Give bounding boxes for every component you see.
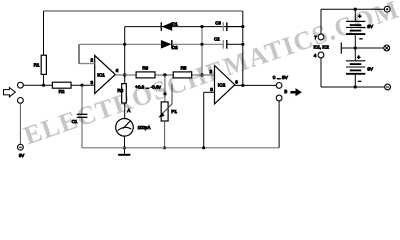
svg-text:100µA: 100µA: [138, 125, 151, 130]
svg-text:6: 6: [116, 68, 119, 73]
wire pin4 vertical: [320, 58, 322, 87]
wire C3 right: [227, 26, 243, 28]
output terminal top: [276, 83, 282, 89]
op-amp IC1: [95, 56, 116, 94]
svg-text:IC1, IC2: IC1, IC2: [314, 44, 330, 49]
wire mid 0V: [341, 47, 384, 49]
battery B2: [354, 48, 356, 60]
wire D2 to caps: [173, 43, 224, 45]
svg-text:C3: C3: [215, 20, 221, 25]
node C1 top: [80, 84, 83, 87]
wire left vertical to R1: [43, 11, 45, 55]
resistor R6: [136, 72, 155, 78]
wire power bottom: [321, 86, 385, 88]
input terminal bottom: [18, 98, 24, 104]
power box: top wire: [321, 8, 384, 10]
node R1/input junction: [42, 84, 45, 87]
resistor R2: [52, 82, 71, 88]
svg-text:−: −: [360, 37, 363, 43]
node cap top left: [200, 25, 203, 28]
capacitor C2: [222, 40, 224, 49]
svg-text:3: 3: [210, 87, 213, 92]
wire R3 to meter: [124, 103, 126, 119]
capacitor C3: [222, 22, 224, 31]
svg-text:4: 4: [314, 53, 317, 58]
wire right vertical x242.8: [242, 11, 244, 85]
ground: [124, 148, 126, 154]
svg-text:+0.6 ... -0.6v: +0.6 ... -0.6v: [135, 84, 161, 89]
meter M1 100uA: [116, 119, 134, 137]
node cap bottom left: [200, 43, 203, 46]
svg-text:R6: R6: [142, 65, 148, 70]
svg-text:C2: C2: [214, 36, 220, 41]
svg-text:P1: P1: [171, 109, 177, 114]
wire D1 line: [125, 26, 243, 28]
op-amp IC2: [215, 66, 235, 104]
wire mid R6 R5: [115, 74, 214, 76]
pin 4: [318, 52, 324, 58]
svg-text:3: 3: [91, 80, 94, 85]
node right vert bottom cap: [241, 43, 244, 46]
wire IC2 pin3 vertical: [203, 92, 205, 148]
resistor R3: [124, 75, 126, 84]
wire pin7 vertical: [320, 9, 322, 34]
wire bottom input terminal down: [19, 103, 21, 144]
battery B1: [354, 9, 356, 21]
wire meter to bottom: [124, 136, 126, 148]
svg-text:R1: R1: [34, 63, 40, 68]
svg-text:D2: D2: [172, 45, 178, 50]
node R6 R5 junction: [163, 73, 166, 76]
wire bottom rail: [82, 147, 279, 149]
wire P1 bottom: [164, 121, 166, 148]
node P1 bottom: [163, 146, 166, 149]
wire output bottom vertical: [278, 101, 280, 148]
wire C1 bottom lead: [81, 118, 83, 148]
wire IC2 pin3: [204, 91, 215, 93]
svg-text:D1: D1: [172, 21, 178, 26]
wire R1 bottom: [43, 74, 45, 85]
node P1 mid: [163, 92, 166, 95]
node mid wire x202: [200, 73, 203, 76]
svg-text:7: 7: [314, 35, 317, 40]
svg-text:C1: C1: [72, 119, 78, 124]
wire IC1 out vertical x124.7: [124, 27, 126, 75]
wire IC2 output: [235, 84, 276, 86]
svg-text:2: 2: [91, 57, 94, 62]
wire P1 branch top: [164, 75, 166, 102]
wire IC1 pin2: [79, 63, 95, 65]
node D2 line x125: [123, 43, 126, 46]
power terminal 0V: [384, 45, 390, 51]
svg-text:+: +: [357, 55, 360, 61]
svg-text:A: A: [127, 108, 131, 113]
diode D2: [161, 40, 172, 49]
power terminal plus: [384, 6, 390, 12]
node right vert output: [241, 84, 244, 87]
wire feedback vertical x79: [78, 44, 80, 63]
power terminal minus: [385, 84, 391, 90]
svg-text:6: 6: [235, 79, 238, 84]
svg-text:0 ... 5V: 0 ... 5V: [273, 75, 289, 81]
wire cap left vertical x202: [201, 27, 203, 75]
input arrow: [4, 88, 16, 97]
svg-text:2: 2: [210, 69, 213, 74]
svg-text:−: −: [358, 79, 361, 85]
node battery1 top: [354, 8, 357, 11]
svg-text:B: B: [284, 89, 287, 94]
output terminal bottom: [276, 95, 282, 101]
node meter bottom: [123, 146, 126, 149]
wire top feedback: [44, 10, 243, 12]
svg-text:9V: 9V: [367, 67, 374, 72]
pin 7: [318, 34, 324, 40]
wire feedback D2 line: [79, 43, 161, 45]
terminal minus 9V: [18, 144, 24, 150]
capacitor C1: [77, 113, 88, 115]
node pin3 bottom: [202, 146, 205, 149]
node battery2 bottom: [354, 85, 357, 88]
svg-text:R5: R5: [181, 65, 187, 70]
node battery mid: [354, 46, 357, 49]
svg-text:+: +: [358, 14, 361, 20]
wire C1 top lead: [81, 85, 83, 113]
output arrow: [290, 88, 302, 96]
resistor R5: [173, 72, 192, 78]
diode D1: [162, 22, 173, 31]
svg-text:9V: 9V: [19, 153, 24, 158]
node IC1 out: [123, 73, 126, 76]
resistor R1: [41, 55, 46, 74]
svg-text:R2: R2: [59, 89, 65, 94]
wire C2 right: [227, 43, 243, 45]
svg-text:9V: 9V: [367, 24, 374, 29]
wire input to IC1 pin3: [23, 84, 94, 86]
svg-text:IC1: IC1: [97, 73, 105, 79]
svg-text:R3: R3: [117, 88, 123, 93]
potentiometer P1: [161, 102, 168, 121]
svg-text:IC2: IC2: [218, 83, 226, 89]
input terminal top: [18, 82, 24, 88]
watermark: [20, 0, 400, 151]
node right vert top cap: [241, 25, 244, 28]
